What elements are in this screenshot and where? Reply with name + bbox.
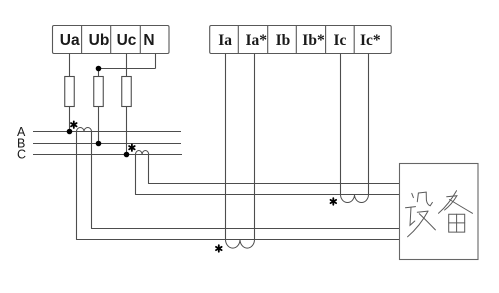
fuse FU3 (122, 77, 132, 107)
CT TA1 secondary wire down and right to device (92, 132, 400, 229)
junction dot on line A (67, 129, 73, 135)
right current terminal block (Ia Ia* Ib Ib* Ic Ic*) (210, 26, 392, 54)
polarity asterisk at CT TA2 (129, 144, 135, 151)
phase line A (33, 131, 181, 133)
备 field middle horizontal (449, 222, 465, 224)
设 vertical with up tick (410, 207, 415, 225)
phase line B (33, 143, 181, 145)
备 horizontal-falling stroke (445, 196, 457, 210)
wire Uc to fuse FU3 (126, 54, 128, 77)
left voltage terminal block (Ua Ub Uc N) (53, 26, 170, 54)
wire fuse FU2 to line B (98, 107, 100, 144)
device box (load) (400, 164, 479, 260)
polarity asterisk at current coil 1 (216, 245, 222, 252)
wire junction to fuse FU2 (98, 69, 100, 77)
设 you horizontal (417, 211, 428, 212)
svg-text:Uc: Uc (117, 32, 137, 49)
svg-text:Ib*: Ib* (302, 32, 325, 49)
junction dot N-to-fuse2 (96, 66, 102, 72)
备 field box (449, 214, 465, 232)
备 field middle vertical (456, 214, 458, 232)
设 you left-falling stroke (408, 211, 428, 237)
CT TA2 secondary wire down and right to device (149, 155, 400, 184)
svg-text:Ia: Ia (218, 32, 232, 49)
current coil of element 1 (Ia) (226, 240, 255, 249)
fuse FU2 (94, 77, 104, 107)
wire fuse FU3 to line C (126, 107, 128, 155)
CT TA1 primary winding on line A (77, 128, 92, 132)
junction dot on line B (96, 141, 102, 147)
wire fuse FU1 to line A (69, 107, 71, 132)
svg-text:Ua: Ua (60, 32, 80, 49)
wire terminal Ic down to current coil (340, 54, 342, 195)
svg-text:Ib: Ib (276, 32, 291, 49)
svg-text:Ub: Ub (89, 32, 110, 49)
polarity asterisk at current coil 2 (331, 198, 337, 205)
设 dot of speech radical (412, 193, 414, 197)
fuse FU1 (65, 77, 75, 107)
phase line C (33, 154, 182, 156)
设 top geng right leg with hook (426, 192, 432, 206)
polarity asterisk at CT TA1 (71, 121, 77, 128)
设 you right-falling stroke (419, 214, 435, 230)
备 long left-falling stroke (439, 191, 457, 214)
wire terminal Ia down to current coil (225, 54, 227, 240)
current coil of element 2 (Ic) (341, 195, 369, 203)
CT TA1 secondary wire (polarity end) down and right to device (77, 132, 400, 240)
wire N horizontal to junction (99, 68, 156, 70)
wire N down (155, 54, 157, 69)
设 top geng top bar (418, 191, 426, 194)
wire terminal Ia* down to current coil (254, 54, 256, 240)
svg-text:Ia*: Ia* (246, 32, 268, 49)
设 horizontal of speech radical (406, 207, 416, 208)
CT TA2 primary winding on line C (136, 151, 149, 155)
设 top geng left vertical (417, 193, 418, 202)
svg-text:C: C (17, 147, 26, 161)
wire Ua to fuse FU1 (69, 54, 71, 77)
junction dot on line C (124, 152, 130, 158)
device label 设备 (stick strokes) (406, 191, 473, 237)
CT TA2 secondary wire (polarity end) down and right to device (136, 155, 400, 195)
wire terminal Ic* down to current coil (368, 54, 370, 195)
svg-text:Ic: Ic (333, 32, 346, 49)
备 right-falling stroke (450, 200, 473, 214)
svg-text:Ic*: Ic* (360, 32, 381, 49)
svg-text:N: N (143, 32, 154, 49)
